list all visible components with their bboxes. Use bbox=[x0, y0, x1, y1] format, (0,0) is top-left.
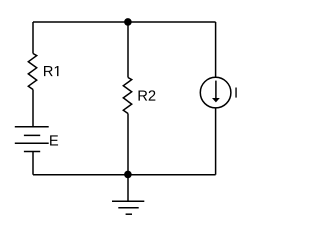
wire R1 to battery bbox=[32, 90, 34, 127]
wire middle branch upper (top node to R2) bbox=[127, 22, 129, 78]
junction node top bbox=[124, 18, 132, 26]
wire bottom horizontal bbox=[33, 174, 216, 176]
ground bar 1 (long) bbox=[112, 200, 144, 202]
label R1 bbox=[44, 66, 58, 76]
ground bar 3 (short) bbox=[126, 213, 132, 215]
battery E plate 2 (short) bbox=[24, 134, 40, 136]
label E bbox=[50, 135, 58, 145]
resistor R2 bbox=[123, 78, 131, 114]
current source I circle bbox=[200, 77, 231, 108]
battery E plate 3 (long) bbox=[15, 142, 49, 144]
wire R2 to bottom node bbox=[127, 114, 129, 175]
label I bbox=[235, 87, 236, 97]
wire bottom node to ground bbox=[127, 175, 129, 202]
wire current source to bottom wire bbox=[215, 108, 217, 175]
wire top horizontal bbox=[33, 21, 216, 23]
wire left branch upper (top wire to R1) bbox=[32, 22, 34, 54]
battery E plate 1 (long) bbox=[15, 126, 49, 128]
battery E plate 4 (short) bbox=[24, 151, 40, 153]
current source I arrowhead bbox=[212, 98, 220, 102]
wire right branch upper (top wire to current source) bbox=[215, 22, 217, 77]
resistor R1 bbox=[28, 54, 36, 90]
ground bar 2 (middle) bbox=[118, 207, 138, 209]
label R2 bbox=[139, 90, 156, 100]
wire battery to bottom wire bbox=[32, 152, 34, 175]
current source I arrow shaft bbox=[215, 81, 217, 99]
junction node bottom bbox=[124, 171, 132, 179]
